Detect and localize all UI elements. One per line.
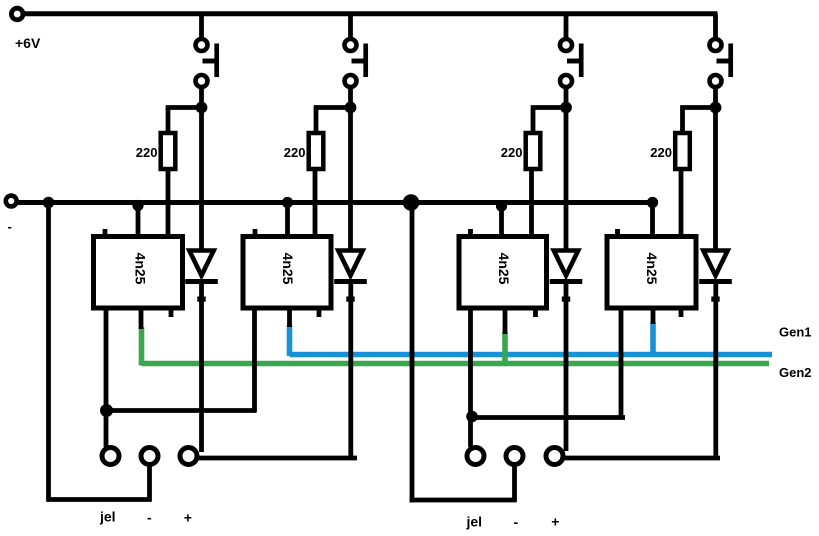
switch S3 upper contact — [560, 39, 572, 51]
svg-text:4n25: 4n25 — [496, 253, 512, 285]
switch S4 upper contact — [710, 39, 722, 51]
switch S4 plunger crossbar — [717, 59, 731, 64]
node jel junction 1 — [100, 404, 113, 417]
resistor R1 220 — [161, 133, 176, 169]
node - input terminal — [6, 196, 17, 207]
svg-text:jel: jel — [99, 509, 116, 525]
wire diode D1 cathode down to terminal + 1 — [199, 283, 204, 452]
node junction below S3 — [560, 102, 572, 114]
svg-text:+: + — [551, 514, 559, 530]
pin U3 top stub — [468, 229, 473, 236]
diode D3 — [554, 251, 578, 276]
wire big junction drop to terminal - 2 — [410, 202, 415, 503]
pin U4 top stub — [615, 229, 620, 236]
node junction negative rail left — [43, 197, 55, 209]
wire jel junction 2 down to terminal — [468, 416, 473, 447]
wire switch S2 to junction — [348, 87, 353, 110]
svg-text:4n25: 4n25 — [644, 253, 660, 285]
wire switch S4 to junction — [713, 87, 718, 110]
terminal + 1 — [180, 448, 197, 465]
node junction negative rail / U3 pin — [496, 200, 507, 211]
svg-text:+: + — [184, 510, 192, 526]
wire negative rail to U3 top pin — [499, 203, 504, 241]
wire switch S1 to junction — [199, 87, 204, 110]
node junction negative rail / U1 pin — [132, 200, 143, 211]
svg-text:220: 220 — [136, 145, 158, 160]
diode D2 — [338, 251, 362, 276]
svg-text:220: 220 — [650, 145, 672, 160]
wire S1 junction down to diode D1 — [199, 106, 204, 254]
svg-text:Gen1: Gen1 — [779, 325, 812, 340]
pin U1 bottom-right stub — [169, 308, 174, 317]
svg-text:220: 220 — [501, 145, 523, 160]
switch S2 lower contact — [345, 75, 357, 87]
terminal - 2 — [506, 448, 523, 465]
wire S4 junction down to diode D4 — [713, 106, 718, 254]
optocoupler U3 4n25 — [459, 237, 547, 309]
resistor R4 220 — [675, 133, 690, 169]
wire diode D3 cathode down to terminal + 2 — [564, 283, 569, 451]
pin U1 top stub — [103, 229, 108, 236]
wire Gen2 green stub from U3 pin — [502, 332, 508, 366]
switch S1 stub from +6V rail — [199, 14, 204, 38]
wire negative rail — [17, 200, 658, 205]
switch S2 stub from +6V rail — [348, 14, 353, 38]
node junction negative rail / U2 pin — [282, 197, 293, 208]
node +6V terminal — [11, 8, 23, 20]
pin U4 bottom-right stub — [679, 308, 684, 317]
svg-text:-: - — [147, 510, 152, 526]
wire negative rail to U2 top pin — [285, 203, 290, 241]
wire S2 junction to resistor R2 — [314, 105, 351, 110]
pin U2 top stub — [253, 229, 258, 236]
svg-text:4n25: 4n25 — [280, 253, 296, 285]
wire R4 bottom to U4 top pin — [679, 168, 684, 241]
pin U1 bottom-left down — [104, 306, 109, 413]
wire jel junction 1 down to terminal — [104, 410, 109, 447]
wire terminal + 2 to diode D4 cathode — [562, 456, 720, 461]
svg-text:220: 220 — [284, 145, 306, 160]
wire jel junction 1 to U2 bottom-left pin — [106, 408, 257, 413]
wire Gen2 green stub from U1 pin — [139, 327, 145, 366]
svg-text:jel: jel — [466, 514, 483, 530]
wire R2 bottom to U2 top pin — [313, 168, 318, 241]
optocoupler U2 4n25 — [243, 237, 331, 309]
switch S2 plunger crossbar — [352, 59, 366, 64]
wire S3 junction to resistor R3 — [531, 105, 566, 110]
node junction below S1 — [196, 102, 208, 114]
svg-text:-: - — [514, 514, 519, 530]
wire S3 junction down to diode D3 — [564, 106, 569, 254]
pin U1 bottom-center to Gen wire — [139, 306, 144, 329]
wire S2 junction down to diode D2 — [348, 106, 353, 254]
pin U3 bottom-center to Gen wire — [503, 306, 508, 334]
optocoupler U4 4n25 — [607, 237, 696, 309]
svg-text:+6V: +6V — [15, 35, 41, 51]
wire S4 junction to resistor R4 — [681, 105, 716, 110]
diode D4 — [703, 251, 727, 276]
switch S4 stub from +6V rail — [713, 14, 718, 38]
pin U2 bottom-center to Gen wire — [287, 306, 292, 327]
terminal jel 1 — [102, 448, 119, 465]
switch S3 stub from +6V rail — [564, 14, 569, 38]
wire jel junction 2 to U4 bottom-left pin — [471, 415, 626, 420]
pin U3 bottom-left down — [468, 306, 473, 420]
switch S1 lower contact — [196, 75, 208, 87]
wire terminal + 1 to diode D2 cathode — [196, 456, 357, 461]
switch S3 plunger crossbar — [567, 59, 581, 64]
switch S1 plunger crossbar — [203, 59, 217, 64]
diode D1 — [189, 251, 213, 276]
resistor R3 220 — [526, 133, 541, 169]
switch S1 upper contact — [196, 39, 208, 51]
node junction below S2 — [345, 102, 357, 114]
wire Gen1 blue stub from U4 pin — [650, 322, 656, 356]
wire negative rail drop to terminal - 1 — [46, 201, 51, 502]
switch S1 plunger bar — [214, 44, 219, 78]
wire Gen2 green horizontal — [142, 361, 770, 367]
pin U3 bottom-right stub — [533, 308, 538, 317]
switch S3 plunger bar — [579, 44, 584, 78]
wire S1 junction to resistor R1 — [166, 105, 202, 110]
wire Gen1 blue horizontal — [290, 352, 773, 358]
node junction negative rail (big) — [403, 194, 420, 211]
wire switch S3 to junction — [564, 87, 569, 110]
terminal + 2 — [546, 448, 563, 465]
wire +6V top rail — [23, 11, 718, 16]
node junction negative rail / U4 pin — [647, 197, 658, 208]
switch S4 lower contact — [710, 75, 722, 87]
svg-text:Gen2: Gen2 — [779, 365, 812, 380]
pin U4 bottom-center to Gen wire — [651, 306, 656, 324]
switch S2 upper contact — [345, 39, 357, 51]
svg-text:4n25: 4n25 — [133, 253, 149, 285]
wire R1 bottom to U1 top pin — [166, 168, 171, 241]
wire Gen1 blue stub from U2 pin — [287, 325, 293, 356]
switch S4 plunger bar — [728, 44, 733, 78]
switch S3 lower contact — [560, 75, 572, 87]
terminal - 1 — [141, 448, 158, 465]
wire negative rail to U4 top pin — [650, 203, 655, 241]
node junction below S4 — [710, 102, 722, 114]
optocoupler U1 4n25 — [94, 237, 183, 309]
terminal jel 2 — [467, 448, 484, 465]
wire negative rail to U1 top pin — [136, 203, 141, 241]
pin U2 bottom-right stub — [317, 308, 322, 317]
svg-text:-: - — [8, 219, 12, 234]
switch S2 plunger bar — [363, 44, 368, 78]
node jel junction 2 — [466, 411, 478, 423]
wire R3 bottom to U3 top pin — [529, 168, 534, 241]
resistor R2 220 — [309, 133, 324, 169]
